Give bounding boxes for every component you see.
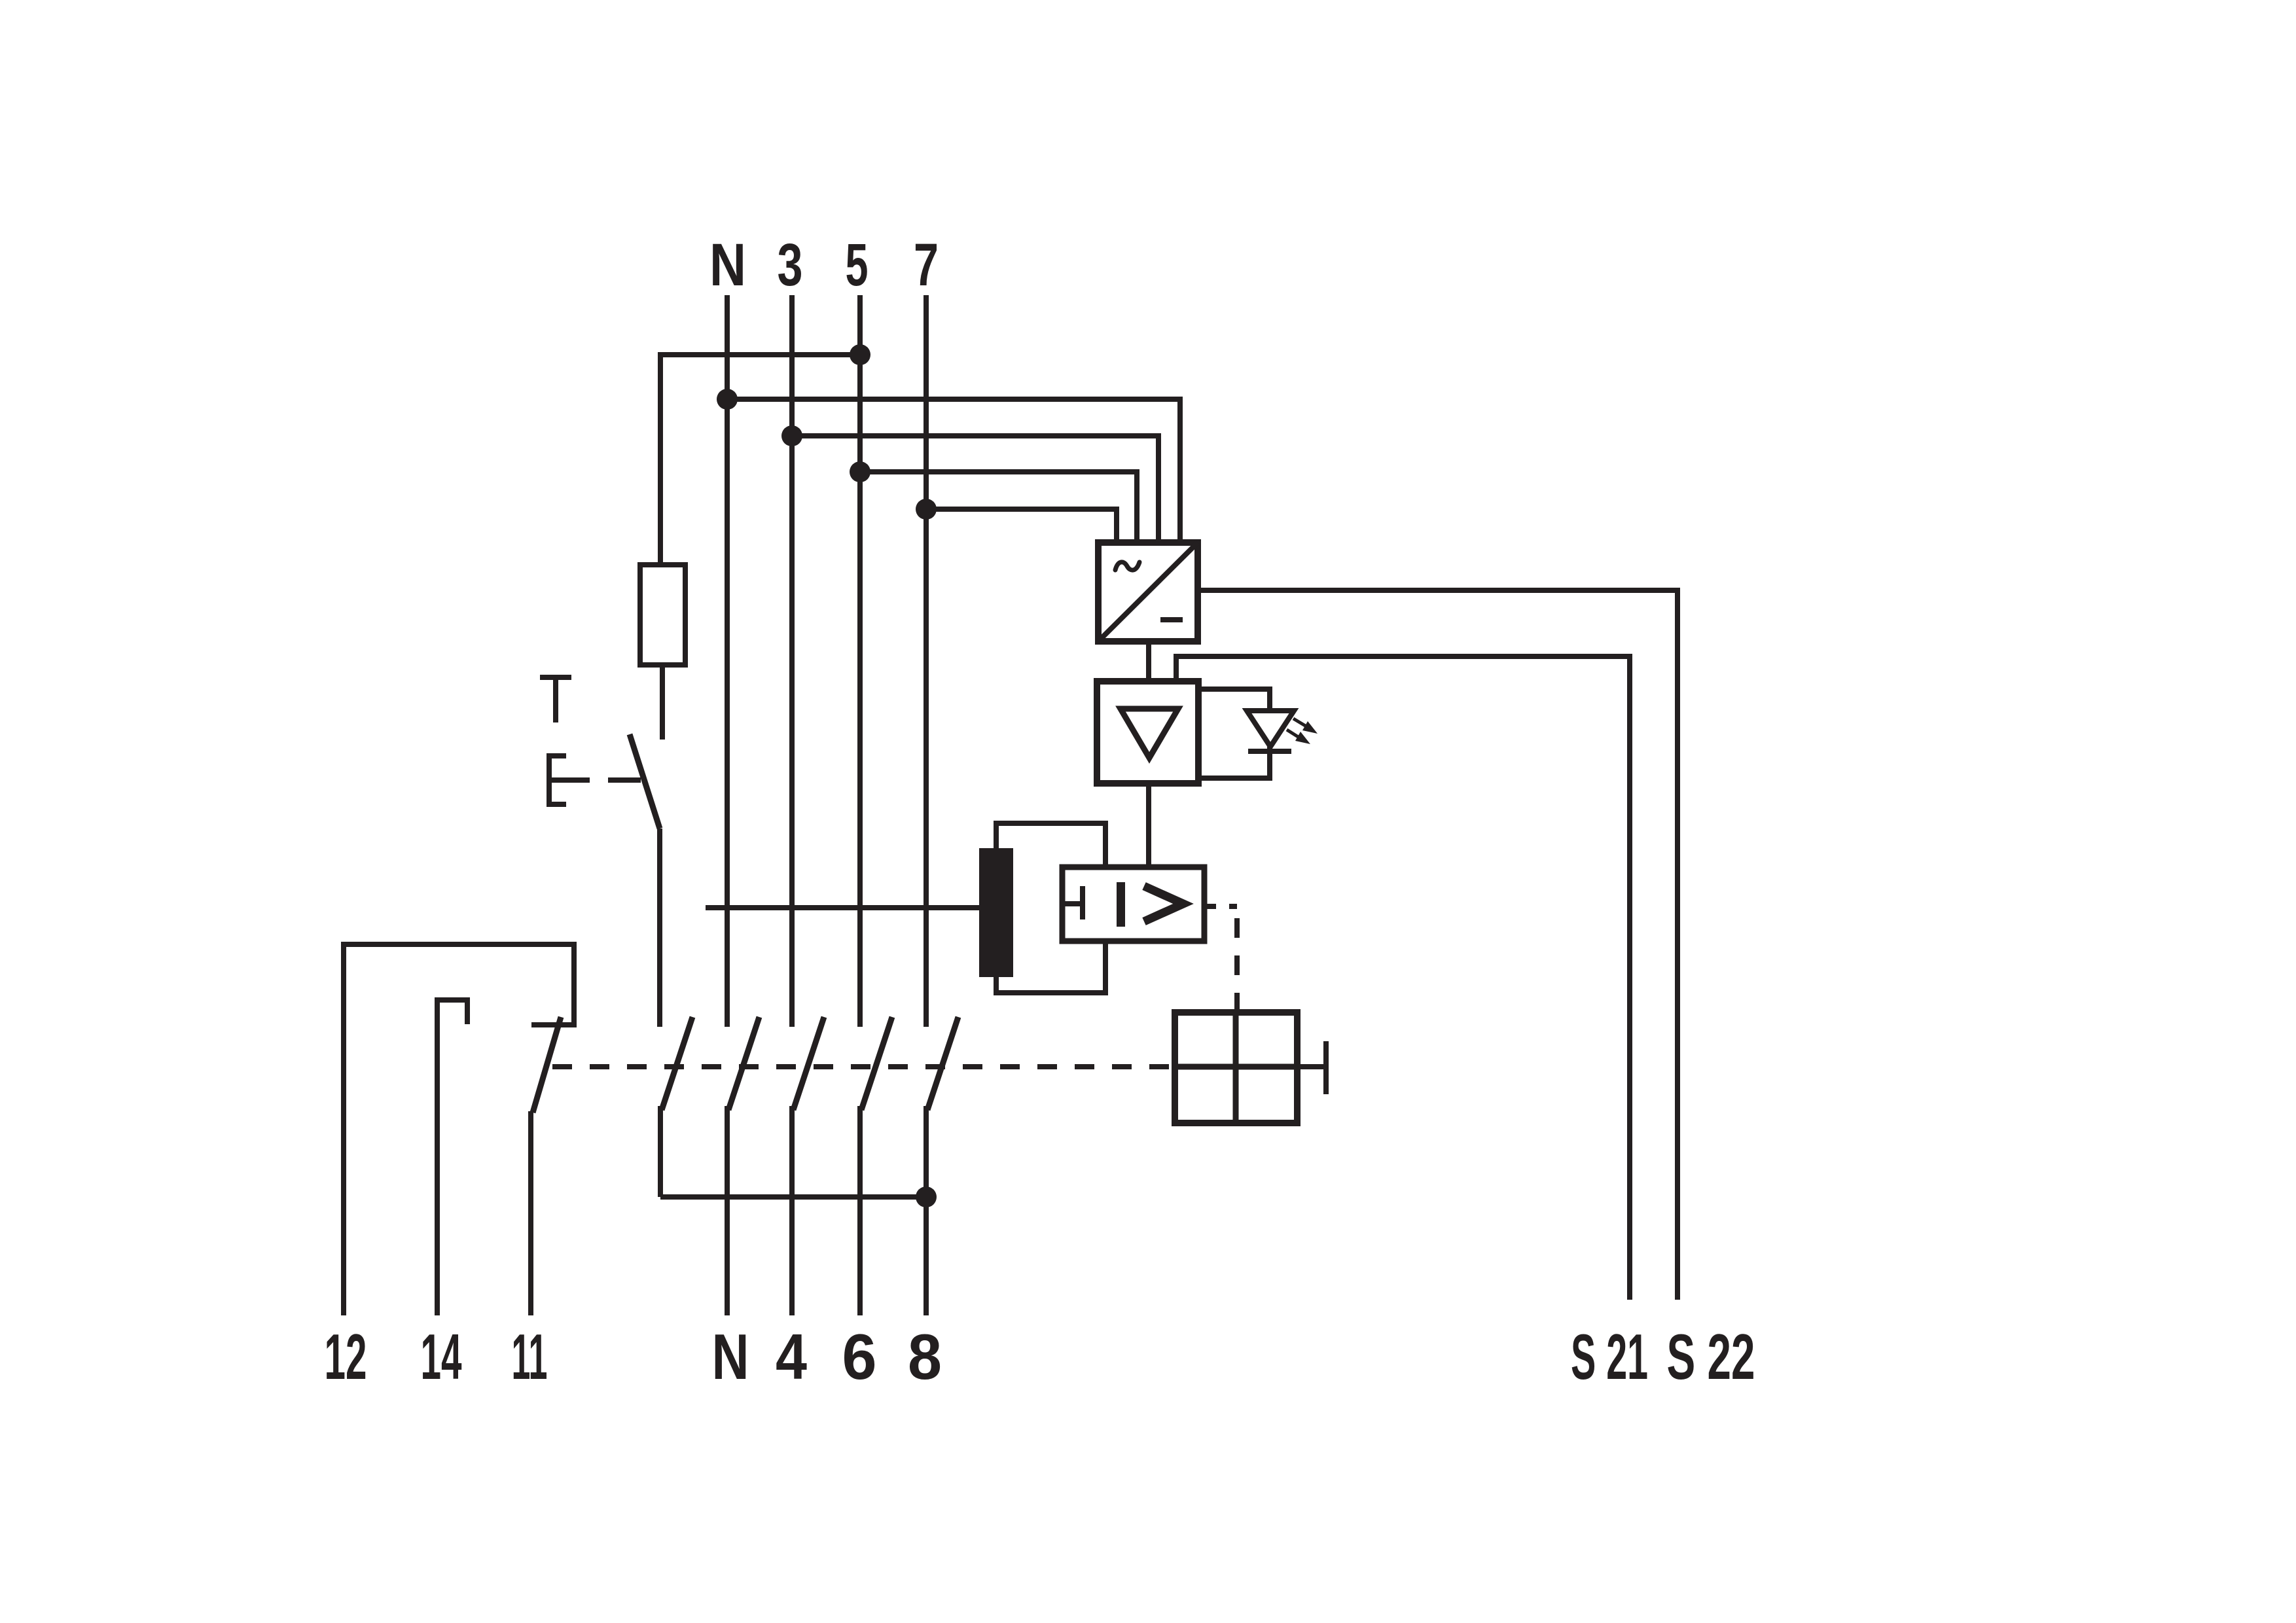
wire pole 3 upper vertical <box>789 295 795 1027</box>
svg-text:4: 4 <box>776 1321 807 1393</box>
LED diode symbol <box>1247 711 1294 751</box>
svg-text:N: N <box>712 1321 749 1393</box>
main contact blade pole 8 <box>927 1017 958 1110</box>
wire resistor to test switch <box>660 665 665 740</box>
main contact blade pole N <box>728 1017 759 1110</box>
wire CT primary line <box>706 905 979 910</box>
test button T mark <box>540 677 571 722</box>
svg-text:S 22: S 22 <box>1667 1321 1755 1393</box>
wire pole N upper vertical <box>725 295 730 1027</box>
svg-text:7: 7 <box>914 232 939 298</box>
svg-text:11: 11 <box>512 1321 548 1393</box>
wire test-circuit tap from line 5 to resistor <box>660 355 860 565</box>
node junction dot on line 3 <box>781 425 802 446</box>
overcurrent relay I> box <box>1062 867 1204 941</box>
LED emission arrow 1 <box>1293 719 1318 734</box>
main contact blade pole 4 <box>793 1017 824 1110</box>
wire test switch down <box>657 829 662 1027</box>
wire test return rail <box>660 1194 926 1200</box>
wire release box to relay I> <box>1146 783 1151 867</box>
main contact blade test pole <box>662 1017 692 1110</box>
node junction dot on line 5 (test tap) <box>850 344 870 365</box>
wire power supply to release box <box>1146 641 1151 681</box>
current transformer core (black bar) <box>979 848 1013 977</box>
auxiliary contact blade terminal 11 <box>533 1017 561 1113</box>
svg-text:N: N <box>709 232 746 298</box>
svg-text:S 21: S 21 <box>1571 1321 1648 1393</box>
mechanical linkage dashed line <box>552 1064 1175 1069</box>
svg-text:6: 6 <box>842 1321 877 1393</box>
wire 5 to power supply <box>860 472 1137 543</box>
current transformer secondary frame <box>996 823 1105 993</box>
wire pole 6 lower vertical <box>857 1106 863 1315</box>
resistor R (test resistor) <box>640 565 685 665</box>
test button box <box>1175 1012 1326 1123</box>
svg-text:14: 14 <box>421 1321 462 1393</box>
wire pole 7 upper vertical <box>924 295 929 1027</box>
auxiliary contact fixed path terminal 14 <box>437 1000 467 1315</box>
wire N to power supply <box>727 399 1180 543</box>
wire 7 to power supply <box>926 509 1117 543</box>
test button actuator symbol <box>549 756 641 804</box>
node junction dot on line 5 <box>850 461 870 482</box>
wire pole 4 lower vertical <box>789 1106 795 1315</box>
power supply U1 (AC/DC converter block) <box>1098 543 1198 641</box>
wire 3 to power supply <box>792 436 1158 543</box>
wire terminal 11 lower vertical <box>528 1111 533 1315</box>
auxiliary contact fixed path terminal 12 <box>344 944 574 1315</box>
LED emission arrow 2 <box>1287 730 1310 744</box>
LED indicator box <box>1198 689 1270 778</box>
release box U2 (tripping solenoid, triangle) <box>1097 681 1198 783</box>
wire pole N lower vertical <box>725 1106 730 1315</box>
wire pole 5 upper vertical <box>857 295 863 1027</box>
wire S22 from power supply output <box>1198 590 1677 1300</box>
node junction dot on line 7 <box>916 499 937 520</box>
svg-text:3: 3 <box>778 232 803 298</box>
main contact blade pole 6 <box>861 1017 892 1110</box>
wire test pole lower <box>658 1106 663 1197</box>
svg-text:12: 12 <box>325 1321 367 1393</box>
wire S21 from solenoid box <box>1176 656 1630 1300</box>
wire pole 8 lower vertical <box>924 1106 929 1315</box>
test switch contact blade <box>630 734 660 829</box>
node junction dot on pole 8 <box>916 1186 937 1207</box>
dashed link relay to test box <box>1204 904 1237 909</box>
svg-text:5: 5 <box>846 232 869 298</box>
svg-text:8: 8 <box>908 1321 942 1393</box>
node junction dot on line N <box>717 389 738 410</box>
